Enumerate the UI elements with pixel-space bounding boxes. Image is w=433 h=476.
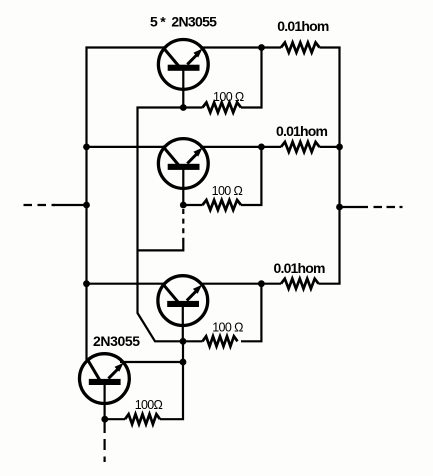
transistor Q1 (2N3055) [158, 40, 208, 90]
wire: Q2 collector rail to 0.01ohm R6 [200, 146, 281, 148]
node: left bus / Q2 base rail junction [83, 144, 90, 151]
svg-text:0.01hom: 0.01hom [274, 260, 326, 276]
wire: Q3 emitter lead down to node [182, 306, 184, 341]
node: right bus output junction [336, 204, 343, 211]
wire: R1 right end up to collector rail node [241, 46, 262, 107]
node: right bus / rail 2 junction [336, 144, 343, 151]
resistor R7 0.01 ohm (bottom) [281, 279, 319, 289]
svg-text:2N3055: 2N3055 [93, 333, 140, 349]
svg-text:100 Ω: 100 Ω [213, 90, 244, 104]
transistor Q2 (2N3055) [158, 139, 208, 189]
transistor Q4 (2N3055) [80, 354, 130, 404]
wire: dashed output lead [374, 206, 403, 208]
Q4 emitter lead with arrow (upper-right diagonal) [108, 369, 118, 379]
Q2 collector lead (upper-left diagonal) [163, 146, 179, 165]
node: Q3 emitter junction [180, 338, 187, 345]
svg-text:100 Ω: 100 Ω [212, 184, 243, 198]
wire: Q3 emitter node down past Q4 collector node to corner, left to R4 [160, 341, 183, 419]
Q4 body circle [80, 354, 130, 404]
wire: Q4 emitter lead down to node [103, 385, 105, 420]
svg-text:0.01hom: 0.01hom [277, 18, 329, 34]
wire: R3 right end up to third collector rail node [241, 284, 261, 342]
node: Q1 emitter junction [180, 104, 187, 111]
wire: Q1 emitter node to R1 [183, 106, 202, 108]
wire: Q4 emitter node to R4 [105, 418, 125, 420]
wire: solid stub below Q4 emitter node [103, 419, 105, 433]
transistor Q3 (2N3055) [158, 276, 208, 326]
Q1 emitter lead with arrow (upper-right diagonal) [187, 55, 197, 65]
wire: Q2 emitter lead down to node [182, 170, 184, 206]
svg-text:5 * 2N3055: 5 * 2N3055 [150, 13, 217, 29]
wire: dashed continuation below Q2 emitter node [182, 209, 184, 241]
wire: top base rail from left bus corner to Q1 [87, 46, 167, 362]
Q1 collector lead (upper-left diagonal) [163, 47, 179, 66]
svg-text:100 Ω: 100 Ω [212, 321, 243, 335]
resistor R5 0.01 ohm (top) [281, 43, 320, 53]
wire: Q3 emitter node to R3 [183, 340, 203, 342]
wire: R2 right end up to second collector rail node [241, 147, 261, 205]
resistor R3 100 ohm (Q3 emitter) [203, 336, 238, 346]
wire: R5 right end to right bus corner [320, 46, 341, 48]
wire: Q1 emitter lead down to node [182, 70, 184, 108]
wire: elbow joining dashed branch to left vertical [138, 241, 184, 251]
wire: dashed input lead at left [24, 204, 56, 206]
Q1 emitter arrowhead [193, 49, 202, 58]
wire: solid input lead to left bus node [53, 204, 87, 206]
wire: Q1 collector rail (right) to 0.01ohm R5 [200, 46, 281, 48]
resistor R1 100 ohm (Q1 emitter) [203, 103, 242, 113]
wire: Q1 emitter node left then down, diagonal to Q3 emitter row [138, 108, 184, 342]
Q2 emitter lead with arrow (upper-right diagonal) [187, 154, 197, 164]
Q4 collector lead (upper-left diagonal from base bus) [87, 359, 100, 381]
node: Q2 emitter junction [180, 202, 187, 209]
resistor R6 0.01 ohm (middle) [281, 142, 320, 152]
resistor R2 100 ohm (Q2 emitter) [203, 200, 242, 210]
Q2 emitter arrowhead [193, 148, 202, 157]
wire: Q2 emitter node to R2 [183, 204, 202, 206]
wire: Q3 collector rail to 0.01ohm R7 [200, 283, 281, 285]
Q1 body circle [158, 40, 208, 90]
svg-text:0.01hom: 0.01hom [276, 123, 328, 139]
Q2 base bar [168, 164, 200, 170]
wire: R7 right end to right bus bottom corner [319, 283, 341, 285]
node: collector rail 3 junction [258, 280, 265, 287]
svg-text:100Ω: 100Ω [135, 398, 163, 412]
wire: dashed continuation below Q4 [103, 439, 105, 462]
node: collector rail 2 junction [258, 144, 265, 151]
resistor R4 100 ohm (Q4 emitter) [125, 414, 160, 424]
Q3 body circle [158, 276, 208, 326]
wire: right bus vertical [338, 48, 340, 284]
node: collector rail 1 junction [258, 44, 265, 51]
Q4 base bar [89, 379, 121, 385]
Q4 emitter arrowhead [115, 363, 124, 372]
node: left bus input junction [83, 202, 90, 209]
Q1 base bar [168, 65, 200, 71]
node: Q4 collector junction [180, 359, 187, 366]
wire: R6 right end to right bus node [320, 146, 340, 148]
Q2 body circle [158, 139, 208, 189]
wire: third base rail from left bus to Q3 [87, 283, 165, 285]
Q3 collector lead (upper-left diagonal) [162, 283, 178, 302]
wire: Q4 collector to vertical [120, 361, 183, 363]
wire: second base rail from left bus to Q2 [87, 146, 167, 148]
node: left bus / Q3 base rail junction [83, 280, 90, 287]
Q3 emitter lead with arrow (upper-right diagonal) [187, 291, 197, 301]
Q3 emitter arrowhead [193, 285, 202, 294]
Q3 base bar [167, 301, 199, 307]
node: Q4 emitter junction [101, 416, 108, 423]
wire: output lead from right bus node [340, 206, 369, 208]
